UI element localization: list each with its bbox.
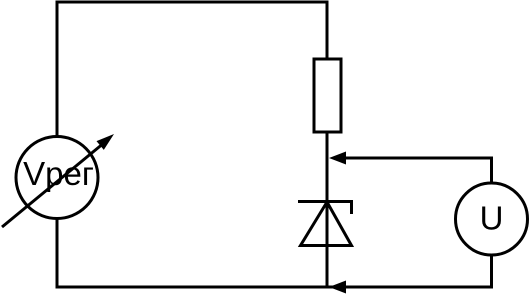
sense arrowhead upper [329, 152, 346, 165]
wire: left vertical bottom (source bottom lead) [56, 219, 59, 289]
wire: bottom rail [56, 286, 493, 289]
zener diode VD1 anode triangle [301, 202, 352, 246]
wire: resistor to bottom rail (through diode) [326, 132, 329, 289]
resistor R1 [314, 59, 341, 132]
voltmeter U circle [456, 183, 528, 255]
variability arrow line through source [2, 145, 101, 227]
variability arrowhead [97, 134, 115, 150]
wire: left vertical top (source top lead) [56, 1, 59, 138]
source V1 (Vрег) circle [16, 137, 98, 219]
zener diode VD1 cathode bar with hook [298, 202, 352, 215]
wire: voltmeter top lead [490, 157, 493, 184]
wire: right branch top (rail to resistor) [326, 1, 329, 60]
wire: voltmeter bottom lead [490, 255, 493, 289]
current arrowhead on bottom rail [329, 281, 346, 294]
svg-text:U: U [480, 200, 504, 237]
wire: top rail [56, 1, 328, 4]
sense wire upper (to voltmeter) [345, 157, 492, 160]
